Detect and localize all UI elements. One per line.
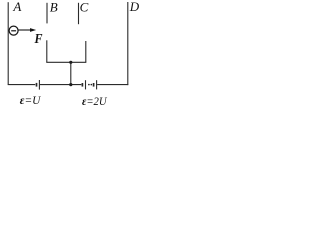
svg-text:F: F	[34, 31, 43, 46]
plate A	[7, 2, 9, 84]
wire	[97, 84, 128, 86]
plate C (upper segment with hole)	[78, 3, 80, 24]
force arrow F	[18, 28, 36, 32]
plate B (upper segment with hole)	[46, 3, 48, 24]
wire	[70, 62, 72, 84]
wire	[8, 84, 36, 86]
svg-text:ε=U: ε=U	[20, 93, 42, 107]
battery cells (ε=2U)	[82, 80, 96, 89]
wire	[40, 84, 81, 86]
node junction on BC wire	[69, 61, 72, 64]
node junction on bottom wire	[69, 83, 72, 86]
battery cell (ε=U)	[37, 80, 40, 90]
wire	[46, 61, 86, 63]
plate C (lower segment)	[85, 41, 87, 62]
svg-text:A: A	[12, 0, 21, 14]
svg-text:C: C	[80, 0, 89, 14]
plate D	[127, 2, 129, 85]
svg-text:ε=2U: ε=2U	[82, 94, 108, 108]
dotted cells between batteries	[88, 84, 92, 86]
plate B (lower segment)	[46, 40, 48, 62]
negative charge particle	[9, 26, 18, 35]
svg-text:D: D	[129, 0, 140, 14]
svg-text:B: B	[50, 0, 58, 14]
